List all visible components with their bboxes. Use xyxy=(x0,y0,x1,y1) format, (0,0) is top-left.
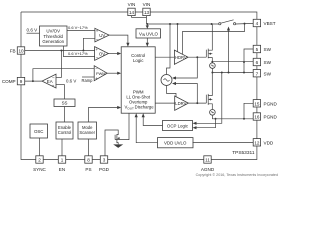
wire OCP sense high xyxy=(193,72,223,125)
pin 16 PGND xyxy=(253,113,277,120)
pin 4 VBST xyxy=(253,19,275,26)
current sense 1 xyxy=(210,63,216,69)
svg-text:VIN: VIN xyxy=(143,2,151,7)
wire VIN to VIN UVLO xyxy=(146,24,149,29)
svg-text:SYNC: SYNC xyxy=(33,167,46,172)
box SS soft start xyxy=(54,85,75,107)
wire SS to Enable Control xyxy=(64,107,66,123)
label Ramp xyxy=(82,77,95,83)
driver U-HDRV xyxy=(174,50,188,64)
wire SW net to pins xyxy=(211,49,253,74)
IC outline border xyxy=(21,12,257,160)
svg-text:OV: OV xyxy=(99,51,105,56)
svg-text:Generation: Generation xyxy=(42,39,64,44)
svg-text:Ramp: Ramp xyxy=(82,78,94,83)
wire VDD pin to VDD UVLO xyxy=(193,141,254,143)
svg-text:VIN: VIN xyxy=(128,2,136,7)
pin 7 SW xyxy=(253,70,271,77)
svg-text:SS: SS xyxy=(62,101,68,106)
pin 2 SYNC xyxy=(33,156,46,172)
op-amp OV comparator xyxy=(95,47,109,61)
op-amp EA error amplifier xyxy=(42,74,56,88)
svg-text:UV: UV xyxy=(99,33,105,38)
svg-text:−: − xyxy=(96,37,99,42)
svg-text:+: + xyxy=(95,47,98,52)
wire control to LDRV xyxy=(155,102,175,104)
wire OCP to control xyxy=(142,113,163,125)
wire bootstrap arrow to switch xyxy=(227,27,230,74)
box VDD UVLO xyxy=(158,138,194,148)
svg-text:OCP Logic: OCP Logic xyxy=(167,124,189,129)
svg-text:SW: SW xyxy=(264,71,272,76)
svg-text:FB: FB xyxy=(10,48,16,53)
transistor Q1 high-side FET xyxy=(188,24,212,63)
box Enable Control xyxy=(56,122,73,139)
label 0.6V-17% xyxy=(67,25,95,31)
svg-text:VDD: VDD xyxy=(264,140,274,145)
svg-text:EN: EN xyxy=(59,167,65,172)
svg-text:8: 8 xyxy=(87,158,90,163)
svg-text:VIN UVLO: VIN UVLO xyxy=(139,31,159,37)
svg-text:LDRV: LDRV xyxy=(175,101,186,106)
wire VIN UVLO to control logic xyxy=(146,38,149,47)
box VIN UVLO xyxy=(136,29,161,38)
box Mode Scanner xyxy=(78,122,97,139)
anti-cross-conduction circle xyxy=(161,75,172,86)
svg-text:16: 16 xyxy=(254,115,260,120)
svg-text:COMP: COMP xyxy=(2,79,16,84)
svg-text:3: 3 xyxy=(103,158,106,163)
svg-text:12: 12 xyxy=(254,140,260,145)
wire VIN rail drops to HDRV xyxy=(167,24,178,75)
svg-text:Scanner: Scanner xyxy=(79,130,95,135)
box UV/OV Threshold Generation xyxy=(40,26,68,46)
svg-text:HDRV: HDRV xyxy=(175,55,187,60)
svg-text:PGD: PGD xyxy=(99,167,110,172)
svg-text:Copyright © 2016, Texas Instru: Copyright © 2016, Texas Instruments Inco… xyxy=(196,173,278,177)
box Control Logic / PWM one-shot xyxy=(121,47,155,113)
wire FB net xyxy=(25,38,95,77)
svg-text:OSC: OSC xyxy=(34,129,44,134)
ground xyxy=(113,144,123,148)
pin 8 PS xyxy=(85,156,92,172)
wire circle to LDRV xyxy=(167,86,177,97)
svg-text:0.6 V+17%: 0.6 V+17% xyxy=(68,51,88,56)
wire control to HDRV xyxy=(155,56,174,58)
wire PS to Mode Scanner xyxy=(88,139,90,156)
svg-text:PGND: PGND xyxy=(264,101,278,106)
label 0.6 V reference xyxy=(27,28,40,34)
wire VDD UVLO to control xyxy=(135,113,158,143)
svg-text:SW: SW xyxy=(264,47,272,52)
svg-text:6: 6 xyxy=(256,60,259,65)
svg-text:7: 7 xyxy=(256,71,259,76)
svg-text:TPS53311: TPS53311 xyxy=(232,150,255,156)
svg-text:11: 11 xyxy=(205,158,210,163)
pin 15 PGND xyxy=(253,100,277,107)
svg-text:0.6 V: 0.6 V xyxy=(66,78,76,83)
pin 14 VIN xyxy=(128,2,136,15)
svg-text:Logic: Logic xyxy=(133,58,144,63)
pin 13 VIN xyxy=(143,2,151,15)
pin 6 SW xyxy=(253,58,271,65)
wire EA to COMP xyxy=(25,69,95,82)
pin 9 COMP xyxy=(2,77,25,84)
wire EN to Enable Control xyxy=(61,139,63,156)
pin 3 PGD xyxy=(99,156,110,172)
wire PGND net xyxy=(212,103,253,120)
svg-text:10: 10 xyxy=(18,49,24,54)
pin 1 EN xyxy=(58,156,65,172)
driver U-LDRV xyxy=(175,96,189,110)
wire VIN rail xyxy=(132,16,220,26)
box OSC xyxy=(30,124,48,138)
svg-text:PS: PS xyxy=(85,167,91,172)
svg-text:+: + xyxy=(52,83,55,88)
wire OCP sense low xyxy=(193,118,217,130)
pin 10 FB xyxy=(10,47,25,54)
svg-text:0.6 V−17%: 0.6 V−17% xyxy=(68,25,88,30)
svg-text:AGND: AGND xyxy=(201,167,215,172)
transistor Q2 low-side FET xyxy=(188,73,212,110)
svg-text:−: − xyxy=(95,66,98,71)
node SW xyxy=(211,68,213,73)
svg-text:14: 14 xyxy=(129,10,135,15)
wire VBST to HDRV supply xyxy=(183,24,245,55)
svg-text:VOUT Discharge: VOUT Discharge xyxy=(125,105,155,111)
wire OV output xyxy=(108,52,121,55)
svg-text:−: − xyxy=(96,56,99,61)
svg-text:4: 4 xyxy=(256,21,259,26)
svg-text:2: 2 xyxy=(38,158,41,163)
label 0.6V+17% xyxy=(64,46,95,57)
op-amp PWM comparator xyxy=(94,66,107,81)
svg-text:Control: Control xyxy=(58,130,72,135)
svg-text:0.6 V: 0.6 V xyxy=(27,28,39,33)
pin 12 VDD xyxy=(253,139,274,146)
current sense 2 xyxy=(210,110,216,116)
svg-text:9: 9 xyxy=(20,79,23,84)
svg-text:15: 15 xyxy=(254,101,260,106)
wire HDRV gate sense into circle xyxy=(172,57,197,79)
svg-text:13: 13 xyxy=(144,10,150,15)
wire SYNC to OSC xyxy=(39,138,41,156)
pin 11 AGND xyxy=(201,156,215,172)
pin 5 SW xyxy=(253,45,271,52)
op-amp UV comparator xyxy=(95,28,109,42)
wire PWM output xyxy=(107,72,121,75)
bootstrap switch xyxy=(219,20,254,25)
box OCP Logic xyxy=(163,121,193,131)
transistor Q3 PGD open drain xyxy=(105,113,129,156)
label 0.6 V EA reference xyxy=(56,78,76,84)
wire Mode Scanner to PWM box xyxy=(89,106,122,122)
wire LDRV gate sense into circle xyxy=(172,82,197,103)
wire UV output xyxy=(109,35,129,47)
svg-text:+: + xyxy=(95,76,98,81)
svg-text:+: + xyxy=(96,29,99,34)
svg-text:−: − xyxy=(52,76,55,81)
svg-text:PGND: PGND xyxy=(264,115,278,120)
svg-text:VDD UVLO: VDD UVLO xyxy=(164,141,187,146)
svg-text:1: 1 xyxy=(61,158,64,163)
svg-text:VBST: VBST xyxy=(264,21,276,26)
svg-text:SW: SW xyxy=(264,60,272,65)
svg-text:5: 5 xyxy=(256,47,259,52)
